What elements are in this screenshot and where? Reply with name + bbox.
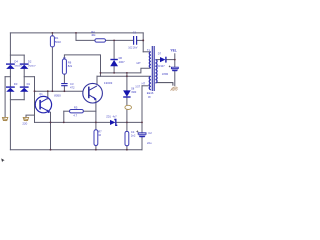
svg-text:D4: D4 — [14, 60, 18, 64]
svg-text:22u: 22u — [147, 141, 152, 145]
svg-text:3.5T: 3.5T — [135, 86, 140, 89]
svg-text:14T: 14T — [136, 61, 141, 65]
svg-text:220: 220 — [22, 121, 27, 125]
svg-text:FR107: FR107 — [157, 64, 165, 68]
svg-text:D6: D6 — [119, 56, 123, 60]
svg-text:R6: R6 — [68, 61, 72, 65]
svg-text:4.7: 4.7 — [73, 113, 77, 117]
svg-text:82k: 82k — [68, 64, 73, 68]
svg-text:HT: HT — [142, 81, 146, 85]
svg-text:R1: R1 — [55, 36, 59, 40]
svg-text:1N4007: 1N4007 — [14, 66, 22, 68]
svg-text:R5: R5 — [74, 105, 78, 109]
svg-text:C2: C2 — [148, 131, 152, 135]
svg-text:YEL: YEL — [170, 49, 176, 53]
svg-text:4007: 4007 — [119, 60, 125, 64]
svg-text:102 2kV: 102 2kV — [128, 47, 138, 50]
svg-text:40k: 40k — [91, 33, 96, 37]
svg-text:D3: D3 — [14, 82, 18, 86]
svg-text:D7: D7 — [158, 52, 162, 56]
svg-text:2n2: 2n2 — [131, 134, 136, 138]
svg-text:D2: D2 — [28, 60, 32, 64]
svg-text:D1: D1 — [27, 82, 31, 86]
svg-text:4v7: 4v7 — [113, 115, 118, 118]
svg-text:10: 10 — [98, 133, 101, 137]
svg-text:IN60: IN60 — [131, 91, 137, 94]
svg-text:EE16: EE16 — [147, 91, 154, 95]
svg-text:ZD1: ZD1 — [106, 115, 111, 118]
svg-text:Q1: Q1 — [39, 93, 43, 96]
svg-text:472: 472 — [70, 86, 75, 90]
svg-text:13003: 13003 — [104, 81, 113, 85]
svg-text:1N4007: 1N4007 — [28, 66, 36, 68]
svg-text:C1: C1 — [133, 30, 137, 34]
svg-text:8050: 8050 — [54, 94, 61, 98]
svg-text:C3: C3 — [70, 82, 74, 86]
svg-text:561K: 561K — [55, 40, 61, 44]
svg-text:105M: 105M — [162, 73, 168, 76]
